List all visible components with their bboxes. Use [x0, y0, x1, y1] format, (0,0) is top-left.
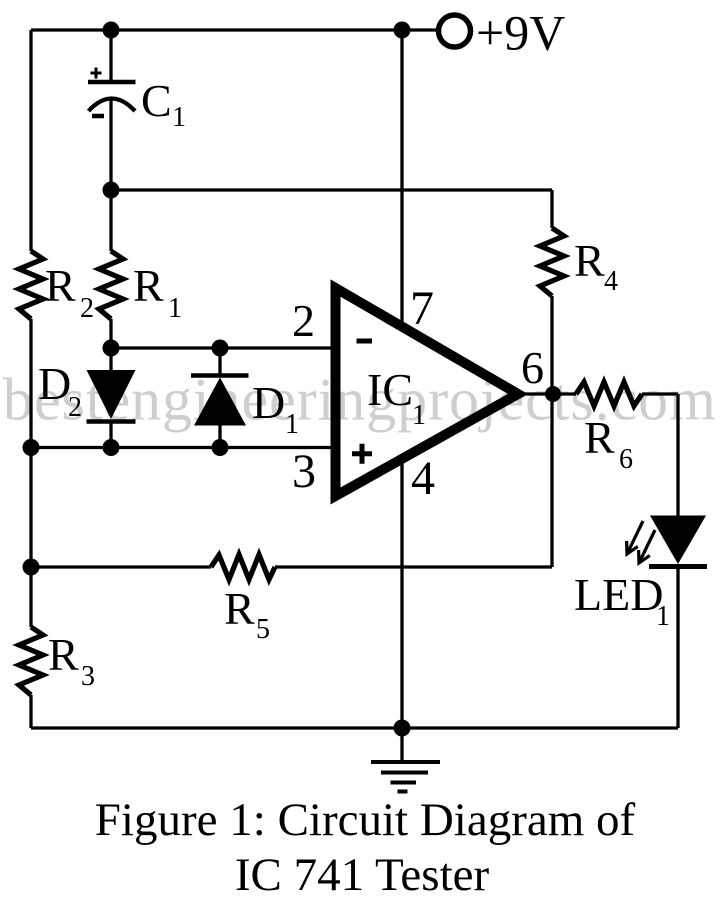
svg-text:1: 1	[656, 601, 670, 632]
svg-text:D: D	[252, 377, 285, 428]
svg-text:1: 1	[285, 409, 299, 440]
svg-text:2: 2	[68, 392, 82, 423]
svg-text:6: 6	[619, 444, 633, 475]
svg-text:R: R	[48, 629, 79, 680]
svg-text:1: 1	[412, 400, 426, 431]
svg-text:IC: IC	[367, 364, 413, 415]
svg-text:IC 741 Tester: IC 741 Tester	[235, 849, 490, 900]
svg-text:1: 1	[172, 102, 186, 133]
svg-text:C: C	[141, 75, 172, 126]
svg-text:R: R	[224, 583, 255, 634]
svg-text:R: R	[574, 235, 605, 286]
svg-text:1: 1	[168, 293, 182, 324]
svg-text:Figure 1: Circuit Diagram of: Figure 1: Circuit Diagram of	[95, 794, 636, 846]
svg-text:+9V: +9V	[476, 5, 565, 61]
svg-text:R: R	[584, 412, 615, 463]
svg-text:3: 3	[292, 445, 316, 498]
svg-text:R: R	[45, 260, 76, 311]
svg-text:2: 2	[292, 295, 315, 346]
svg-text:3: 3	[81, 661, 95, 692]
svg-text:6: 6	[521, 342, 544, 393]
svg-text:2: 2	[80, 293, 94, 324]
svg-text:LED: LED	[574, 569, 663, 620]
svg-text:4: 4	[411, 452, 435, 505]
svg-text:R: R	[133, 260, 164, 311]
svg-text:7: 7	[410, 282, 434, 335]
svg-text:5: 5	[256, 614, 270, 645]
svg-text:4: 4	[604, 266, 618, 297]
svg-text:D: D	[38, 358, 71, 409]
